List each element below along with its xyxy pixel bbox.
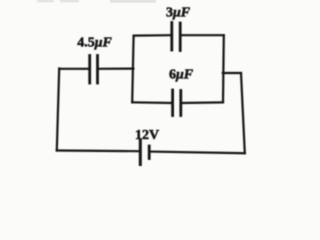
- wire right vertical: [241, 73, 245, 153]
- battery V1 12V long plate: [139, 140, 142, 165]
- capacitor C3 4.5uF right plate: [96, 56, 99, 84]
- wire inner box top right segment: [182, 34, 224, 36]
- wire inner box right vertical: [222, 35, 225, 102]
- wire 4.5uF branch right segment: [99, 67, 133, 69]
- wire inner box bottom right segment: [182, 101, 223, 104]
- wire 4.5uF branch left segment: [59, 68, 88, 70]
- wire right connector: [223, 72, 241, 74]
- wire inner box top left segment: [134, 34, 171, 37]
- wire inner box bottom left segment: [132, 101, 171, 104]
- wire inner box left vertical: [132, 36, 133, 103]
- wire bottom right: [151, 152, 245, 154]
- wire bottom left: [57, 149, 139, 152]
- battery V1 12V short plate: [148, 146, 151, 159]
- capacitor C2 6uF left plate: [171, 90, 174, 116]
- svg-text:4.5μF: 4.5μF: [77, 36, 112, 51]
- capacitor C1 3uF right plate: [179, 23, 182, 51]
- svg-text:12V: 12V: [135, 128, 159, 143]
- svg-text:6μF: 6μF: [169, 68, 194, 83]
- capacitor C3 4.5uF left plate: [88, 56, 91, 84]
- capacitor C1 3uF left plate: [170, 23, 173, 51]
- svg-text:3μF: 3μF: [166, 6, 191, 21]
- capacitor C2 6uF right plate: [179, 91, 182, 116]
- wire left vertical: [57, 69, 59, 151]
